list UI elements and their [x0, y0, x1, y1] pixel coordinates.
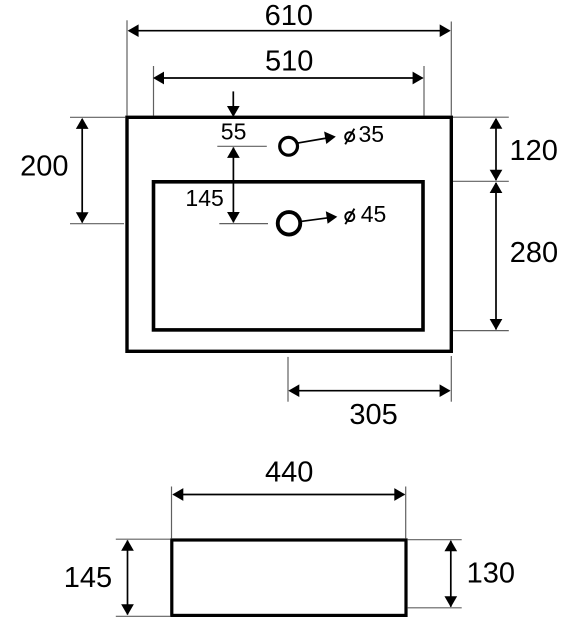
svg-text:610: 610: [265, 0, 313, 32]
svg-text:510: 510: [265, 45, 313, 77]
svg-text:35: 35: [359, 121, 385, 147]
svg-text:305: 305: [349, 399, 397, 431]
svg-text:145: 145: [64, 562, 112, 594]
svg-text:200: 200: [20, 151, 68, 183]
svg-text:440: 440: [265, 456, 313, 488]
svg-text:280: 280: [510, 237, 558, 269]
svg-text:130: 130: [467, 558, 515, 590]
svg-text:145: 145: [185, 185, 223, 211]
svg-text:45: 45: [361, 201, 387, 227]
svg-text:120: 120: [510, 135, 558, 167]
svg-text:55: 55: [221, 118, 247, 144]
